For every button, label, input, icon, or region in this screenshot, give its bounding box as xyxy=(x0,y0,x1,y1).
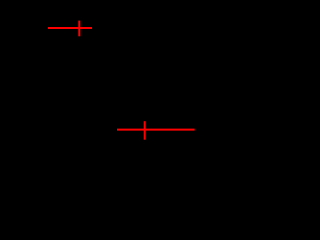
data point 1: vertical error bar xyxy=(78,21,80,37)
data point 2: horizontal error bar xyxy=(117,129,195,131)
data point 1: horizontal error bar xyxy=(48,27,92,29)
data point 2: vertical error bar xyxy=(144,121,146,140)
